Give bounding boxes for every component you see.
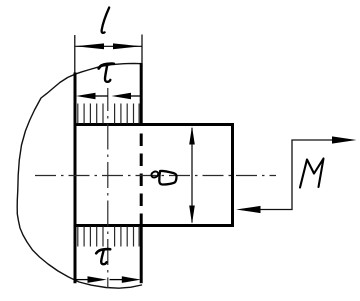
extension line right for dimension l [141,35,143,63]
bar bottom edge [74,224,234,227]
hatch lines bottom glue zone [78,227,139,247]
tau top label [99,64,114,82]
moment arrow top (points right) [332,136,357,143]
tau bottom arrow left (points right) [75,276,107,283]
moment M leader (Z-shaped line with arrows) [259,140,334,210]
flange right edge upper (solid) [140,63,143,126]
tau bottom label [96,249,110,264]
vertical centerline of flange (dash-dot) [107,88,109,288]
bar top edge [74,123,234,126]
label l [102,8,110,33]
moment arrow bottom (points left) [236,206,261,213]
width dimension arrow (vertical double arrow inside bar) [189,126,195,224]
disc outline arc (large oval arc on left) [17,63,141,288]
flange left edge (solid, visible) [74,73,77,284]
label в (rotated Cyrillic ve) [150,170,176,184]
label M [300,159,324,188]
flange right edge hidden behind bar (dashed) [140,126,143,225]
extension line left for dimension l [74,35,76,73]
tau bottom arrow right (points right) [110,276,142,283]
bar right end edge [231,123,234,227]
tau top arrow right (points left) [112,93,143,100]
flange right edge lower (solid) [140,225,143,284]
tau top arrow left (points left) [76,93,108,100]
horizontal centerline (dash-dot) [35,175,276,177]
dimension line l [76,45,142,47]
dimension l left arrowhead [75,43,104,49]
dimension l right arrowhead [113,43,142,49]
hatch lines top glue zone [78,104,139,124]
